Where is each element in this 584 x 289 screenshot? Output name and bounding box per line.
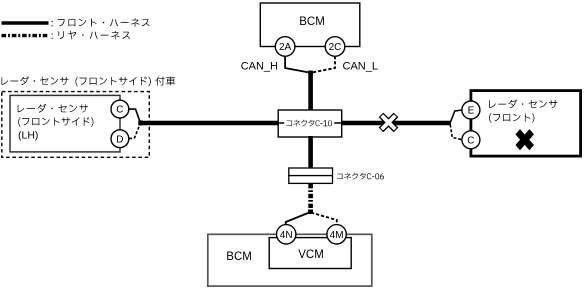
- pin 4N: [277, 225, 296, 244]
- pin C (left sensor): [111, 100, 129, 118]
- connector C-06 label: [337, 173, 384, 180]
- fault mark X inside right box: [511, 124, 539, 156]
- crossing mark X on wire: [374, 107, 404, 137]
- wire pin D to left node (rear harness, dashed): [129, 126, 140, 139]
- wire right junction to pin C (rear harness, dashed): [450, 125, 461, 140]
- wire pin 2A to CAN node (front harness): [285, 56, 310, 73]
- svg-text:VCM: VCM: [298, 249, 324, 261]
- svg-text:BCM: BCM: [299, 16, 325, 28]
- wire bottom junction to pin 4N (front harness): [286, 212, 311, 225]
- wire pin 2C to CAN node (rear harness, dashed): [311, 56, 335, 73]
- VCM box: [269, 238, 351, 269]
- wire: connector C-10 to right junction: [340, 121, 451, 125]
- node: left harness junction: [138, 120, 142, 125]
- radar sensor (front) box: [471, 91, 581, 157]
- pin 2A: [275, 37, 295, 57]
- svg-text:2A: 2A: [279, 42, 292, 53]
- pin D (left sensor): [111, 130, 129, 148]
- wire pin C to left node (front harness): [129, 109, 140, 122]
- svg-text:CAN_L: CAN_L: [343, 61, 378, 73]
- svg-text:CAN_H: CAN_H: [241, 61, 278, 73]
- svg-text:(LH): (LH): [18, 130, 38, 142]
- pin E (right sensor): [462, 101, 480, 119]
- legend front-harness label: [52, 18, 150, 26]
- wire bottom junction to pin 4M (rear harness, dashed): [311, 213, 337, 225]
- wire: left junction to connector C-10: [139, 121, 280, 125]
- connector C-10 label: [287, 120, 333, 127]
- connector C-06 (inline connector, two halves): [289, 168, 333, 176]
- svg-text:4M: 4M: [330, 230, 344, 241]
- caption: with front-side radar sensor: [2, 76, 176, 86]
- wire: connector C-10 to connector C-06: [308, 136, 313, 169]
- wire: CAN node to connector C-10: [308, 72, 313, 111]
- radar sensor (front) label: [489, 99, 557, 122]
- node: CAN junction: [308, 71, 313, 76]
- svg-text:C: C: [116, 105, 123, 116]
- pin 4M: [327, 225, 346, 244]
- svg-text:4N: 4N: [280, 230, 293, 241]
- connector C-10 box: [278, 110, 342, 137]
- BCM (bottom) box: [208, 234, 372, 286]
- legend rear-harness label: [52, 31, 131, 40]
- svg-text:D: D: [116, 134, 123, 145]
- svg-text:2C: 2C: [329, 42, 342, 53]
- pin C (right sensor): [462, 131, 480, 149]
- pin 2C: [325, 37, 345, 57]
- radar sensor (front side) (LH) box: [10, 95, 120, 151]
- wire stubs inside connector C-10: [278, 122, 284, 124]
- svg-text:C: C: [467, 135, 474, 146]
- legend rear-harness sample line: [2, 34, 49, 37]
- node: bottom junction: [308, 210, 313, 215]
- svg-text:E: E: [468, 106, 475, 117]
- BCM (top) box: [260, 3, 360, 47]
- legend front-harness sample line: [2, 21, 49, 24]
- dashed enclosure (front-side radar sensor option): [2, 92, 150, 158]
- radar sensor (front side) (LH) label: [18, 104, 94, 142]
- wire right junction to pin E (front harness): [450, 110, 462, 124]
- svg-text:BCM: BCM: [226, 251, 252, 263]
- wire: connector C-06 down (rear harness dash-dot): [308, 184, 313, 212]
